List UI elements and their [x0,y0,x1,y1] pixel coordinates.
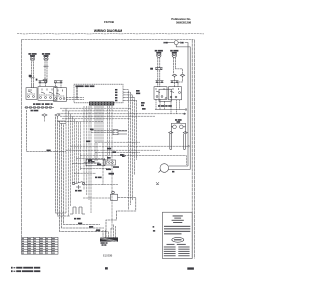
svg-text:WIRING DIAGRAM: WIRING DIAGRAM [94,29,123,33]
svg-text:5995351298: 5995351298 [176,20,192,24]
svg-text:E1030B: E1030B [103,254,113,258]
svg-text:F1F5/B: F1F5/B [104,20,115,24]
